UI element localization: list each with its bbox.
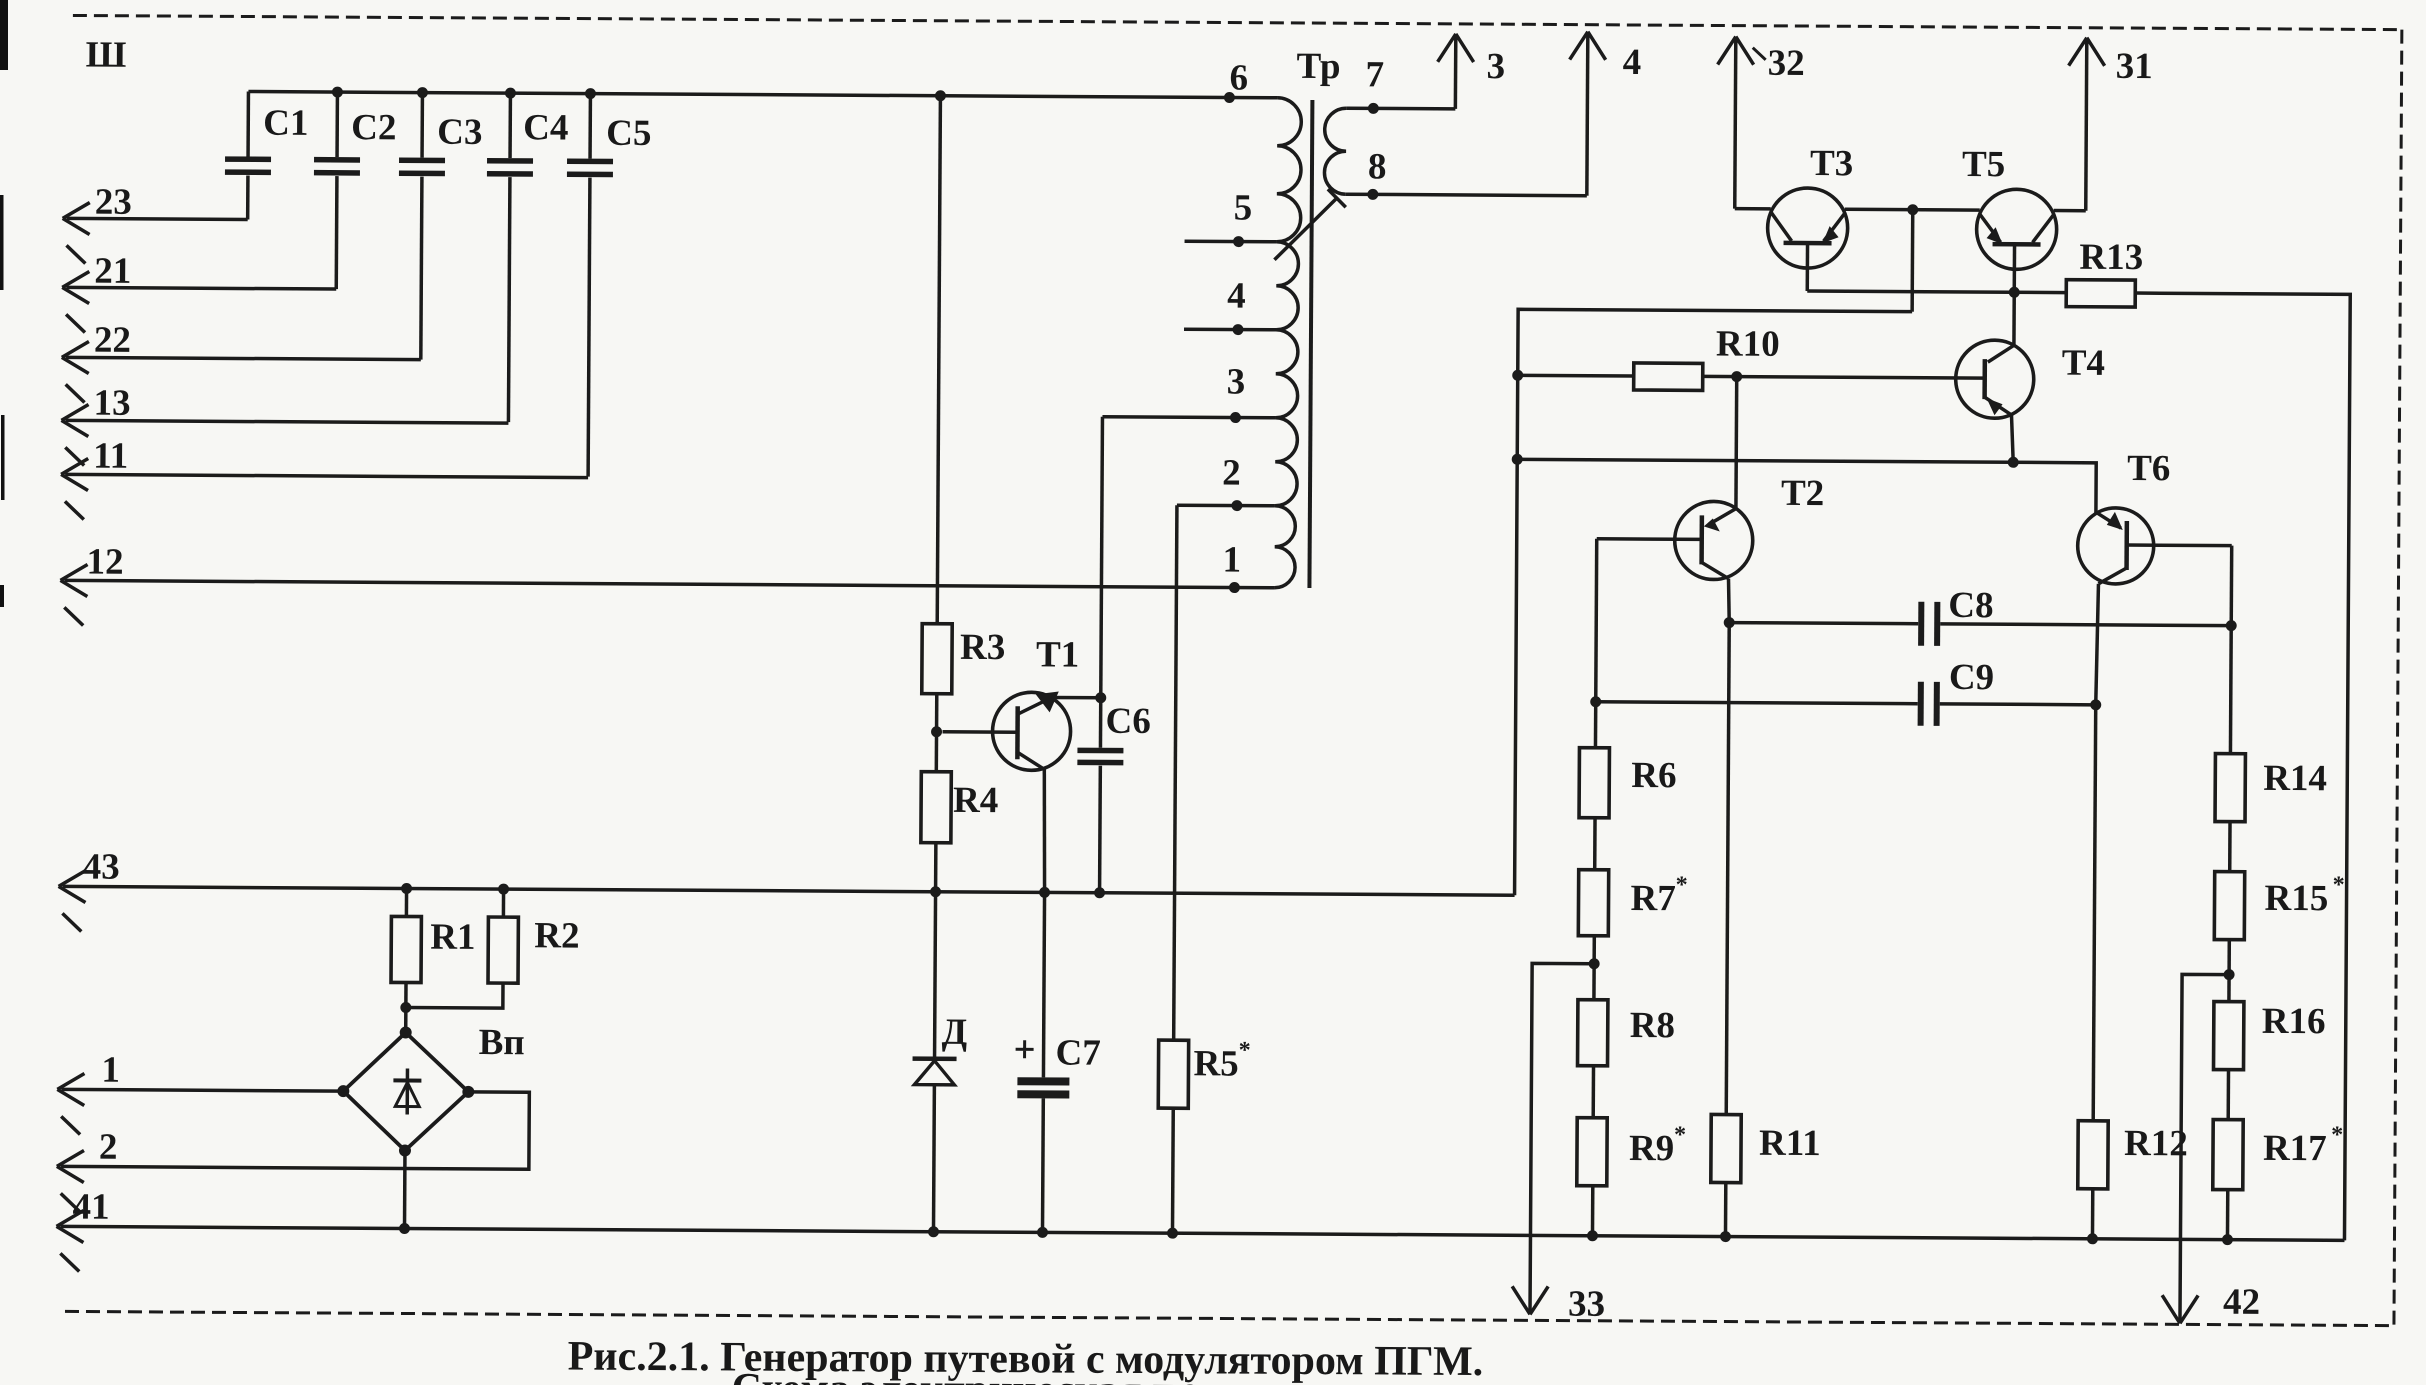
wire R3 to R4 xyxy=(935,694,939,772)
node rail-R17 xyxy=(2222,1234,2233,1245)
svg-text:R13: R13 xyxy=(2079,237,2143,278)
svg-text:Схема электрическая принципиал: Схема электрическая принципиальная xyxy=(731,1365,1480,1385)
node R10-T2col xyxy=(1731,371,1742,382)
terminal 43 / wire xyxy=(58,846,1514,940)
svg-text:C5: C5 xyxy=(606,113,651,154)
resistor R9* xyxy=(1576,1118,1686,1237)
svg-text:R17: R17 xyxy=(2263,1128,2327,1169)
wire T3/T5 bus riser xyxy=(1910,210,1914,312)
node C9-T6col xyxy=(2090,699,2101,710)
svg-text:C2: C2 xyxy=(351,107,396,148)
svg-text:Т2: Т2 xyxy=(1781,473,1824,514)
resistor R8 xyxy=(1577,1000,1675,1119)
wire pin7 xyxy=(1346,106,1455,110)
transformer tap 4 xyxy=(1184,327,1276,331)
resistor R2 xyxy=(406,889,580,1009)
resistor R5* xyxy=(1157,505,1253,1234)
terminal 41 / bottom rail xyxy=(56,1186,2344,1285)
resistor R3 xyxy=(922,96,1009,694)
svg-text:C9: C9 xyxy=(1949,657,1994,698)
wire R4 to 43 line xyxy=(934,843,938,892)
svg-text:Т5: Т5 xyxy=(1962,144,2005,185)
transformer secondary winding (right, pins 7-8) xyxy=(1324,108,1346,194)
transistor T5 xyxy=(1961,144,2057,346)
svg-text:21: 21 xyxy=(94,251,131,292)
svg-text:C8: C8 xyxy=(1948,585,1993,626)
svg-text:2: 2 xyxy=(99,1127,118,1168)
wire 32 corner to T3 xyxy=(1735,207,1771,211)
transformer tap 2 / wire to R5 xyxy=(1177,503,1275,507)
svg-text:R3: R3 xyxy=(960,627,1005,668)
svg-text:*: * xyxy=(2333,872,2345,898)
svg-text:22: 22 xyxy=(94,320,131,361)
node T1-C6 xyxy=(1095,692,1106,703)
capacitor C4 xyxy=(485,93,568,422)
transistor T1 xyxy=(942,634,1079,771)
svg-text:Тр: Тр xyxy=(1296,46,1340,87)
bridge rectifier Vp xyxy=(337,1021,525,1157)
svg-text:43: 43 xyxy=(83,847,120,888)
svg-text:R9: R9 xyxy=(1629,1128,1674,1169)
svg-text:*: * xyxy=(1676,872,1688,898)
node rail-em line xyxy=(1512,454,1523,465)
node rail-R10 xyxy=(1512,370,1523,381)
transistor T3 xyxy=(1767,143,1853,292)
wire pin8 xyxy=(1346,194,1587,195)
svg-text:13: 13 xyxy=(93,383,130,424)
resistor R4 xyxy=(921,772,999,843)
svg-text:C6: C6 xyxy=(1105,701,1150,742)
transistor T2 xyxy=(1596,472,1824,580)
svg-text:Т4: Т4 xyxy=(2062,343,2105,384)
svg-text:R8: R8 xyxy=(1630,1005,1675,1046)
resistor R17* xyxy=(2212,1120,2343,1241)
svg-text:Ш: Ш xyxy=(86,35,127,76)
svg-text:23: 23 xyxy=(95,182,132,223)
node R15-R16-42 xyxy=(2224,969,2235,980)
svg-text:R4: R4 xyxy=(953,780,998,821)
svg-text:C1: C1 xyxy=(263,103,308,144)
transistor T6 xyxy=(2077,448,2232,585)
svg-text:*: * xyxy=(2331,1122,2343,1148)
svg-text:Т3: Т3 xyxy=(1810,143,1853,184)
svg-text:C4: C4 xyxy=(523,107,568,148)
wire emitter line (T4/T6) xyxy=(1517,459,2096,513)
svg-text:R16: R16 xyxy=(2262,1001,2326,1042)
node 43-R4 xyxy=(930,886,941,897)
node C8-T6 xyxy=(2226,620,2237,631)
wire left rail (43 node up to T3 line) xyxy=(1515,309,1913,897)
wire T6 base corner down to C8/R14 xyxy=(2229,546,2233,626)
capacitor C8 xyxy=(1729,584,2231,648)
terminal 11 xyxy=(61,435,589,522)
node 43-R1 xyxy=(401,883,412,894)
transformer core tuning arrow xyxy=(1274,189,1345,260)
wire T2 base down chain xyxy=(1595,539,1596,748)
svg-text:41: 41 xyxy=(73,1186,110,1227)
node T4em xyxy=(2008,457,2019,468)
terminal 12 / wire to transformer pin 1 xyxy=(60,541,1274,632)
resistor R7* xyxy=(1578,870,1688,1001)
node R7-R8-33 xyxy=(1589,958,1600,969)
resistor R10 xyxy=(1518,322,1985,392)
capacitor C9 xyxy=(1596,655,2096,727)
terminal 32 (arrow up) xyxy=(1717,36,1805,209)
node rail-C7 xyxy=(1037,1227,1048,1238)
svg-text:1: 1 xyxy=(1222,539,1241,580)
wire T5 to 31 riser xyxy=(2054,209,2086,213)
node T5em-T4col xyxy=(2009,287,2020,298)
node C8-T2em xyxy=(1724,617,1735,628)
resistor R12 xyxy=(2077,705,2190,1240)
resistor R1 xyxy=(391,888,476,1033)
svg-text:33: 33 xyxy=(1568,1284,1605,1325)
node bus-C2 xyxy=(332,87,343,98)
svg-text:R2: R2 xyxy=(534,915,579,956)
svg-text:R1: R1 xyxy=(430,917,475,958)
node rail-D xyxy=(928,1226,939,1237)
wire T2 emitter down xyxy=(1728,579,1729,623)
node pin6 xyxy=(1224,92,1235,103)
svg-text:2: 2 xyxy=(1222,452,1241,493)
svg-text:8: 8 xyxy=(1368,146,1387,187)
wire T1 emitter down xyxy=(1044,769,1046,892)
terminal 3 (arrow up) xyxy=(1454,34,1458,109)
terminal 42 (arrow down) xyxy=(2162,974,2262,1324)
svg-text:7: 7 xyxy=(1365,54,1384,95)
svg-text:Д: Д xyxy=(942,1012,968,1053)
svg-text:R6: R6 xyxy=(1631,755,1676,796)
svg-text:5: 5 xyxy=(1234,188,1253,229)
transformer tap 3 / wire to C6 xyxy=(1102,417,1275,418)
terminal 4 (arrow up) xyxy=(1587,32,1588,196)
diode D xyxy=(911,892,968,1232)
svg-text:*: * xyxy=(1239,1038,1251,1064)
node R3-R4-T1 base xyxy=(931,726,942,737)
node C9-R6 chain xyxy=(1590,696,1601,707)
wire top bus C1-C5 to transformer pin 6 xyxy=(248,92,1277,98)
svg-text:C3: C3 xyxy=(437,112,482,153)
node 43-C6 xyxy=(1094,887,1105,898)
node bus-R3 xyxy=(935,90,946,101)
svg-text:R15: R15 xyxy=(2264,878,2328,919)
terminal 33 (arrow down) xyxy=(1512,963,1607,1325)
resistor R16 xyxy=(2213,1001,2325,1121)
svg-text:R7: R7 xyxy=(1630,878,1675,919)
wire R13 to right rail xyxy=(2129,293,2350,1240)
node rail-R9 xyxy=(1587,1230,1598,1241)
resistor R6 xyxy=(1579,748,1677,871)
capacitor C6 xyxy=(1077,417,1153,893)
node rail-bridge xyxy=(399,1223,410,1234)
svg-text:12: 12 xyxy=(86,542,123,583)
node bus-C3 xyxy=(417,87,428,98)
capacitor C2 xyxy=(313,92,396,289)
transformer primary winding (left) xyxy=(1274,98,1301,588)
node bus-C5 xyxy=(585,88,596,99)
node bus-C4 xyxy=(505,88,516,99)
svg-text:1: 1 xyxy=(101,1050,120,1091)
svg-text:42: 42 xyxy=(2223,1282,2260,1323)
node rail-R5 xyxy=(1167,1228,1178,1239)
capacitor C5 xyxy=(565,93,652,477)
svg-text:3: 3 xyxy=(1486,46,1505,87)
svg-text:4: 4 xyxy=(1227,276,1246,317)
svg-text:R5: R5 xyxy=(1193,1043,1238,1084)
node T3-T5 bus xyxy=(1907,204,1918,215)
wire T1 collector to C6 node xyxy=(1052,696,1101,700)
svg-text:31: 31 xyxy=(2116,46,2153,87)
capacitor C1 xyxy=(225,91,309,220)
svg-text:32: 32 xyxy=(1768,43,1805,84)
resistor R14 xyxy=(2215,626,2328,873)
svg-text:Вп: Вп xyxy=(479,1022,525,1063)
terminal 21 xyxy=(62,250,336,334)
node rail-R12 xyxy=(2087,1233,2098,1244)
svg-text:Т6: Т6 xyxy=(2127,448,2170,489)
capacitor C7 (electrolytic) xyxy=(1014,892,1101,1233)
svg-text:C7: C7 xyxy=(1055,1032,1100,1073)
scan artifact left edge xyxy=(0,0,8,607)
resistor R15* xyxy=(2214,872,2345,1003)
svg-text:R12: R12 xyxy=(2124,1123,2188,1164)
wire T2 collector riser xyxy=(1734,377,1738,509)
transformer core xyxy=(1309,100,1312,588)
resistor R11 xyxy=(1710,622,1823,1237)
svg-text:11: 11 xyxy=(93,436,128,477)
svg-text:R14: R14 xyxy=(2263,758,2327,799)
svg-text:R11: R11 xyxy=(1759,1123,1821,1164)
wire bridge bottom to 41 rail xyxy=(403,1150,407,1228)
terminal 22 xyxy=(62,319,422,404)
transformer tap 5 xyxy=(1185,239,1277,243)
node R1-R2 bottom xyxy=(400,1002,411,1013)
terminal 2 / wire to bridge right xyxy=(57,1089,530,1214)
wire T3 to T5 xyxy=(1845,208,1980,212)
node 43-T1em xyxy=(1039,887,1050,898)
wire T6 collector down xyxy=(2096,584,2099,705)
transistor T4 xyxy=(1955,340,2105,419)
wire T3 emitter to R13 line xyxy=(1807,291,2066,293)
terminal 23 xyxy=(62,181,247,264)
terminal 31 (arrow up) xyxy=(2068,38,2153,212)
wire T4 emitter down xyxy=(2011,415,2013,462)
svg-text:3: 3 xyxy=(1227,362,1246,403)
terminal 1 / wire to bridge xyxy=(57,1049,344,1136)
node rail-R11 xyxy=(1720,1231,1731,1242)
terminal 13 xyxy=(61,382,508,468)
svg-text:4: 4 xyxy=(1623,42,1642,83)
svg-text:Т1: Т1 xyxy=(1036,634,1079,675)
node 43-R2 xyxy=(498,884,509,895)
svg-text:R10: R10 xyxy=(1716,323,1780,364)
capacitor C3 xyxy=(398,92,483,360)
svg-text:6: 6 xyxy=(1229,58,1248,99)
resistor R13 xyxy=(2066,237,2143,307)
svg-text:*: * xyxy=(1674,1122,1686,1148)
